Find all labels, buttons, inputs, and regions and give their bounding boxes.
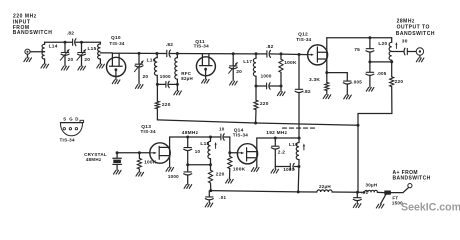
capacitor 10 (Q13 tank) (184, 137, 192, 165)
node dot L19 bottom (297, 165, 300, 168)
wire B+ vertical (357, 125, 359, 192)
resistor 220 (stage2 feed) (155, 84, 159, 120)
label CRYSTAL (84, 152, 107, 157)
crystal Y1 48MHz (113, 153, 121, 170)
ground (100K Q13) (136, 172, 144, 176)
node dot at C1/varcap junction (64, 41, 67, 44)
label 22uH (319, 184, 331, 189)
ground (.005 Q12 source) (344, 95, 352, 99)
label 1000 (stage3) (261, 74, 272, 79)
capacitor 2.2 (271, 138, 279, 167)
label Q13 (141, 124, 151, 130)
wire B+ feed line (157, 120, 358, 125)
ground (RFC bottom) (174, 84, 182, 94)
svg-text:L15: L15 (88, 46, 97, 52)
net label: 28MHz OUTPUT TO BANDSWITCH (396, 19, 435, 37)
inductor L17 (253, 54, 256, 86)
label .82 (Q12 gate) (303, 89, 311, 95)
wire 30uH to FT (377, 191, 384, 193)
svg-text:20: 20 (236, 69, 242, 75)
svg-text:G: G (69, 117, 73, 122)
wire L17 bottom to 100K bottom (256, 85, 281, 87)
label .005 (Q12 source) (352, 80, 362, 85)
transistor Q13 TIS-34 (150, 137, 170, 167)
transistor Q12 TIS-34 (308, 38, 328, 73)
ground (3.3K) (323, 95, 331, 99)
label 100K (Q14 gate) (233, 166, 246, 172)
svg-text:1000: 1000 (261, 74, 272, 79)
svg-text:TIS-34: TIS-34 (60, 138, 75, 143)
svg-text:220: 220 (162, 102, 171, 108)
wire rail to Q12 gate (270, 53, 307, 56)
svg-text:1000: 1000 (283, 167, 294, 172)
node dot bottom rail left (209, 189, 212, 192)
label 82uH (181, 76, 193, 81)
label 30 (402, 39, 408, 45)
node dot varcap4 (232, 52, 235, 55)
node dot 100K (Q13 gate) (138, 151, 141, 154)
svg-text:OUTPUT TO: OUTPUT TO (397, 24, 430, 30)
TIS-34 package outline (bottom view) (60, 120, 83, 136)
label Q12 (298, 32, 308, 38)
variable capacitor 20 (stage1 left) (60, 42, 69, 70)
node dot Q12 source (325, 71, 328, 74)
label 192 MHz (266, 130, 287, 136)
svg-text:BANDSWITCH: BANDSWITCH (13, 30, 53, 36)
label .82 (stage2) (166, 42, 174, 48)
capacitor C1 .82 (series) (73, 39, 76, 46)
svg-text:.82: .82 (266, 44, 274, 50)
node dot Q14 gate (228, 151, 231, 154)
resistor 220 (output feed) (390, 62, 394, 114)
ground (FT) (376, 195, 385, 208)
net label: A+ FROM BANDSWITCH (393, 170, 431, 182)
ground (input connector) (24, 54, 32, 61)
node dot L17 bottom (255, 85, 258, 88)
ground (Q14 source) (251, 168, 259, 172)
node dot 75 cap top (368, 36, 371, 39)
node dot L17 top (255, 52, 258, 55)
wire Q12 drain rail (327, 37, 392, 39)
ground (crystal) (114, 170, 122, 174)
wire crystal to Q13 gate (117, 152, 150, 154)
label TIS-34 (Q12) (296, 37, 311, 42)
label L16 (147, 57, 156, 63)
svg-text:.01: .01 (219, 195, 226, 200)
svg-text:48MHz: 48MHz (182, 130, 199, 136)
wire L15 tap to Q10 gate (100, 52, 112, 54)
svg-text:192 MHz: 192 MHz (266, 130, 287, 136)
svg-text:L19: L19 (289, 142, 298, 148)
svg-text:TIS-34: TIS-34 (233, 133, 248, 138)
svg-text:220: 220 (395, 79, 404, 85)
capacitor 75 (366, 38, 374, 62)
svg-text:10: 10 (219, 126, 225, 131)
wire 2.2 to 1000 to L19 (275, 166, 299, 168)
node dot at C1/varcap junction right (80, 41, 83, 44)
label .01 (Q13 feed) (219, 195, 226, 200)
transistor Q14 TIS-34 (237, 138, 257, 167)
label 220 (output feed) (395, 79, 404, 85)
node dot B+ junction (356, 191, 359, 194)
A+ terminal (408, 184, 412, 188)
label 30uH (366, 183, 378, 188)
svg-text:20: 20 (84, 57, 90, 63)
ground (100K Q14) (226, 179, 234, 183)
node dot L16 bottom (156, 83, 159, 86)
label Q10 (111, 35, 121, 41)
feedthrough capacitor FT 1500 (384, 191, 391, 195)
ground (.01 Q13 feed) (205, 203, 213, 207)
wire bottom B+ rail (211, 191, 317, 192)
label FT (392, 196, 398, 201)
net label: 220 MHz INPUT FROM BANDSWITCH (13, 14, 53, 37)
label S G D (63, 117, 79, 122)
wire cap to output connector (408, 51, 416, 53)
variable capacitor 20 (Q10 drain) (134, 53, 143, 88)
svg-text:75: 75 (354, 47, 360, 53)
output connector J2 (416, 48, 423, 55)
svg-text:1000: 1000 (160, 74, 171, 79)
resistor 220 (stage3 feed) (254, 86, 258, 123)
node dot tank bottom right (209, 163, 212, 166)
svg-text:2.2: 2.2 (278, 149, 286, 155)
ground (Q11 source) (202, 79, 210, 83)
ground (Q10 source) (112, 80, 120, 84)
svg-text:220: 220 (260, 101, 269, 107)
node dot 75 cap bottom (368, 60, 371, 63)
svg-text:20: 20 (143, 74, 149, 80)
svg-text:.005: .005 (377, 71, 387, 76)
inductor L20 (389, 38, 392, 62)
svg-text:100K: 100K (284, 60, 297, 66)
node dot L19 top (298, 137, 301, 140)
label .82 (C1) (67, 30, 75, 36)
label .005 (output node) (377, 71, 387, 76)
resistor 100K (Q13 gate) (137, 153, 141, 172)
input connector J1 (25, 49, 30, 54)
capacitor 1000 (series, stage2 bottom) (166, 81, 169, 87)
label TIS-34 (Q14) (233, 133, 248, 138)
choke 22uH (317, 190, 332, 192)
svg-text:L18: L18 (200, 141, 209, 147)
label .01 (B+) (361, 190, 368, 195)
wire output feed jog (358, 114, 392, 126)
svg-text:TIS-34: TIS-34 (109, 41, 124, 46)
label L15 (88, 46, 97, 52)
tuning arrow (L19) (303, 143, 305, 150)
wire to 30uH (358, 191, 365, 193)
label 1000 (stage2) (160, 74, 171, 79)
wire rail between chokes (332, 191, 357, 193)
resistor 220 (Q13 feed) (208, 165, 212, 191)
label L14 (49, 44, 58, 50)
ground (192 tank) (271, 167, 279, 174)
svg-text:220: 220 (216, 172, 225, 178)
svg-text:.82: .82 (303, 89, 311, 95)
node dot tank bottom left (186, 163, 189, 166)
choke 30uH (365, 190, 378, 192)
svg-text:100K: 100K (144, 160, 157, 166)
label Q11 (195, 39, 205, 45)
variable capacitor 20 (Q11 drain) (229, 54, 238, 85)
capacitor .005 (output node) (366, 62, 374, 87)
label L19 (289, 142, 298, 148)
inductor L15 (98, 42, 101, 64)
capacitor .01 (B+ bypass) (353, 192, 361, 203)
label 220 (stage2 feed) (162, 102, 171, 108)
label TIS-34 (package) (60, 138, 75, 143)
label .82 (stage3) (266, 44, 274, 50)
svg-text:TIS-34: TIS-34 (141, 129, 156, 134)
svg-text:82µH: 82µH (181, 76, 193, 81)
watermark SeekIC.com (401, 201, 460, 213)
ground (.01 B+) (353, 204, 361, 208)
wire node to L20 bottom (370, 61, 392, 63)
node dot L18 top (209, 136, 212, 139)
label 20 (stage1 left) (68, 57, 74, 63)
label 10 (Q13 tank) (195, 149, 201, 154)
svg-text:.82: .82 (166, 42, 174, 48)
label 20 (stage1 right) (84, 57, 90, 63)
node dot feed/vertical (357, 124, 360, 127)
label TIS-34 (Q11) (194, 43, 209, 48)
label 1000 (192 tank) (283, 167, 294, 172)
svg-text:.82: .82 (67, 30, 75, 36)
tuning arrow (L18) (215, 142, 217, 148)
label 48MHz (rail) (182, 130, 199, 136)
inductor L19 (296, 138, 299, 192)
wire 192MHz rail (257, 137, 299, 139)
capacitor .005 (Q12 source) (343, 73, 351, 95)
capacitor .82 (series, stage2) (167, 50, 171, 57)
svg-text:BANDSWITCH: BANDSWITCH (393, 176, 431, 182)
capacitor 30 (series output) (404, 48, 407, 55)
svg-text:D: D (75, 117, 78, 122)
label L20 (378, 41, 387, 47)
svg-text:TIS-34: TIS-34 (296, 37, 311, 42)
variable capacitor 20 (stage1 right) (77, 42, 86, 70)
label 100K (Q12 gate) (284, 60, 297, 66)
inductor L18 (208, 137, 211, 165)
package pins S G D (63, 128, 77, 130)
svg-text:20: 20 (68, 57, 74, 63)
resistor 100K (Q14 gate) (228, 153, 232, 179)
resistor 100K (Q12 gate) (279, 54, 283, 86)
label 3.3K (309, 77, 320, 83)
inductor L16 (154, 54, 157, 85)
svg-text:.005: .005 (352, 80, 362, 85)
capacitor 1000 (192 tank) (290, 163, 294, 169)
node dot L19 rail (297, 190, 300, 193)
wire stage-2 rail continued (170, 53, 266, 55)
node dot 100K top (280, 52, 283, 55)
label 20 (Q10 drain) (143, 74, 149, 80)
svg-text:10: 10 (195, 149, 201, 154)
node dot RFC top (176, 52, 179, 55)
label L17 (243, 59, 252, 65)
wire Q13 tank bottom (188, 164, 211, 166)
capacitor 1000 (Q13 bypass) (184, 165, 192, 184)
node dot L20 bottom (390, 60, 393, 63)
svg-text:22µH: 22µH (319, 184, 331, 189)
svg-text:L17: L17 (243, 59, 252, 65)
resistor 3.3K (325, 73, 329, 95)
capacitor .82 (series, stage3) (267, 50, 271, 57)
label 1500 (392, 200, 403, 205)
wire stage-2 rail (Q10 drain to Q11 area) (112, 52, 166, 54)
transistor Q10 TIS-34 (107, 53, 126, 79)
wire Q14 gate drop (230, 137, 238, 153)
node dot Q12 gate/.82 (298, 53, 301, 56)
svg-text:SeekIC.com: SeekIC.com (401, 201, 460, 213)
label 10 (series) (219, 126, 225, 131)
ground (Q13 source) (166, 168, 174, 172)
label 100K (Q13 gate) (144, 160, 157, 166)
label Q14 (234, 127, 244, 133)
wire L20 tap to output cap (392, 51, 404, 53)
label 2.2 (278, 149, 286, 155)
wire Q12 source to .005 (327, 72, 348, 74)
node dot RFC bottom (176, 83, 179, 86)
svg-text:L20: L20 (378, 41, 387, 47)
label 1000 (Q13 bypass) (168, 174, 179, 179)
label 220 (Q13 feed) (216, 172, 225, 178)
svg-text:48MHz: 48MHz (86, 157, 102, 162)
ground (.005 output node) (366, 87, 374, 91)
ground (1000 Q13) (184, 185, 192, 189)
wire FT to A+ terminal (391, 187, 409, 192)
label 20 (Q11 drain) (236, 69, 242, 75)
wire input to L14 tap (30, 51, 44, 53)
node dot 100K bottom (280, 85, 283, 88)
ground (L14) (41, 64, 49, 68)
inductor RFC 82uH (175, 54, 178, 85)
capacitor 1000 (series, stage3 bottom) (267, 83, 271, 89)
tuning arrow (L20) (395, 42, 397, 49)
ground (output connector) (416, 55, 424, 62)
node dot varcap3 (138, 52, 141, 55)
transistor Q11 TIS-34 (196, 54, 215, 79)
svg-text:L16: L16 (147, 57, 156, 63)
ground (100K bottom) (277, 86, 285, 96)
node dot feed/220 stage3 (254, 122, 257, 125)
svg-text:S: S (63, 117, 66, 122)
svg-text:1000: 1000 (168, 174, 179, 179)
capacitor .82 (Q12 gate to 192MHz) (295, 55, 303, 138)
label L18 (200, 141, 209, 147)
label 48MHz (crystal) (86, 157, 102, 162)
svg-text:3.3K: 3.3K (309, 77, 320, 83)
wire L16 bottom to RFC bottom (157, 83, 177, 85)
ground (L15) (97, 64, 105, 68)
label TIS-34 (Q13) (141, 129, 156, 134)
node dot 2.2 cap (274, 137, 277, 140)
svg-text:30: 30 (402, 39, 408, 45)
label 220 (stage3 feed) (260, 101, 269, 107)
svg-text:30µH: 30µH (366, 183, 378, 188)
inductor L14 (42, 42, 45, 64)
wire 48MHz rail (170, 136, 230, 138)
label RFC (181, 71, 191, 76)
svg-text:100K: 100K (233, 166, 246, 172)
capacitor 10 (series to Q14) (221, 134, 224, 140)
capacitor .01 (Q13 feed bypass) (205, 191, 213, 203)
node dot 10 cap top (186, 136, 189, 139)
svg-text:L14: L14 (49, 44, 58, 50)
node dot L16 top (155, 52, 158, 55)
svg-text:220 MHz: 220 MHz (13, 14, 37, 20)
shield partition (dashed) (282, 127, 315, 129)
svg-text:TIS-34: TIS-34 (194, 43, 209, 48)
svg-text:BANDSWITCH: BANDSWITCH (396, 31, 435, 37)
label 75 (354, 47, 360, 53)
node dot crystal (116, 151, 119, 154)
label TIS-34 (Q10) (109, 41, 124, 46)
wire stage-1 tank rail (45, 41, 101, 43)
